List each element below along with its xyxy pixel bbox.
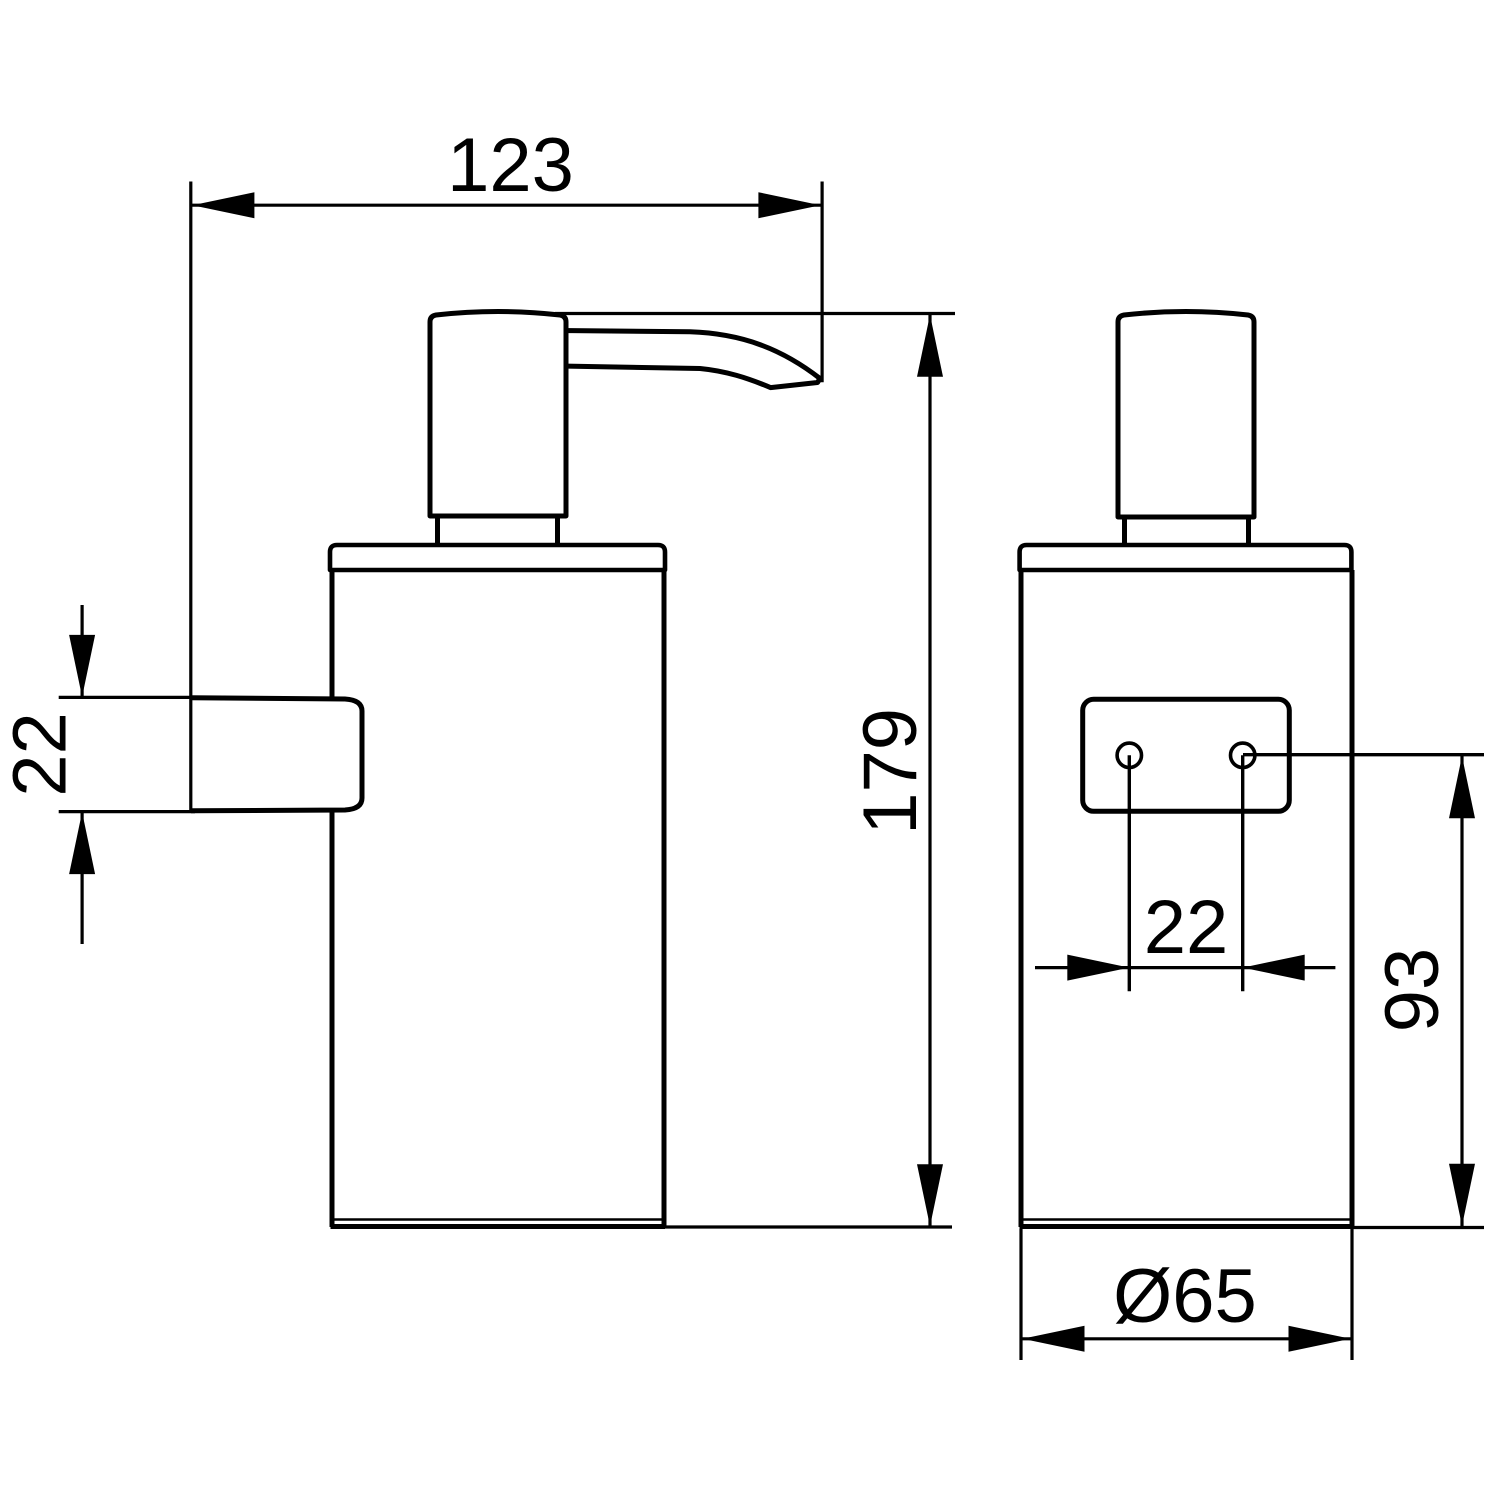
dimension D65: right arrowhead [1289, 1326, 1351, 1352]
front view: base bottom line [1020, 1224, 1353, 1229]
dimension D65: dimension line [1023, 1337, 1351, 1340]
front view: pump neck right edge [1246, 517, 1251, 548]
dimension 179: bottom arrowhead [917, 1164, 943, 1226]
side view: pump neck left edge [435, 516, 440, 548]
dimension 123: right arrowhead [758, 192, 820, 218]
dimension 93: top extension line [1243, 753, 1484, 756]
side view: pump neck right edge [555, 516, 560, 548]
dimension D65: left extension line [1019, 1229, 1022, 1360]
dimension 123: right extension line [820, 182, 823, 383]
front view: base thin line [1022, 1218, 1351, 1221]
front view: pump head [1118, 312, 1254, 518]
dimension 22 side: bottom tick [59, 810, 195, 813]
side view: base thin line [333, 1218, 663, 1221]
dimension 22 side: upper line [80, 605, 83, 696]
dimension 179: top extension line [555, 312, 955, 315]
front view: pump neck left edge [1122, 517, 1127, 548]
side view: body left edge [330, 570, 335, 1227]
svg-text:179: 179 [848, 708, 933, 835]
dimension 22 side: top tick [59, 696, 195, 699]
dimension 93: bottom arrowhead [1449, 1164, 1475, 1226]
svg-text:22: 22 [1144, 885, 1229, 970]
dimension 22 front: right extension line [1241, 755, 1244, 991]
dimension 22 front: right arrowhead [1243, 955, 1305, 981]
front view: body left edge [1019, 570, 1024, 1227]
front view: mounting plate [1083, 699, 1290, 811]
side view: pump head [430, 312, 566, 517]
front view: left screw hole [1117, 743, 1141, 767]
dimension 179: bottom extension line [664, 1225, 952, 1228]
side view: pump spout [560, 331, 820, 388]
side view: wall bracket [191, 698, 362, 811]
dimension 22 front: left extension line [1128, 755, 1131, 991]
dimension 179: top arrowhead [917, 315, 943, 377]
dimension D65: right extension line [1350, 1229, 1353, 1360]
dimension 22 side: upper arrowhead [69, 635, 95, 697]
dimension 22 side: lower arrowhead [69, 812, 95, 874]
front view: collar [1020, 545, 1352, 570]
side view: collar [330, 545, 665, 570]
dimension 123: left extension line [189, 182, 192, 811]
dimension 93: bottom extension line [1352, 1226, 1484, 1229]
dimension 93: dimension line [1460, 756, 1463, 1226]
dimension 123: dimension line [192, 204, 821, 207]
dimension 22 front: left arrowhead [1067, 955, 1129, 981]
svg-text:Ø65: Ø65 [1113, 1254, 1257, 1339]
front view: right screw hole [1231, 743, 1255, 767]
dimension 179: dimension line [928, 315, 931, 1226]
front view: body right edge [1350, 570, 1355, 1227]
svg-text:22: 22 [0, 712, 83, 797]
svg-text:93: 93 [1370, 948, 1455, 1033]
dimension 22 front: dimension line [1035, 966, 1335, 969]
dimension 93: top arrowhead [1449, 756, 1475, 818]
svg-text:123: 123 [447, 123, 574, 208]
dimension 123: left arrowhead [192, 192, 254, 218]
dimension D65: left arrowhead [1023, 1326, 1085, 1352]
side view: body right edge [662, 570, 667, 1227]
dimension 22 side: lower line [80, 813, 83, 944]
side view: base bottom line [331, 1224, 666, 1229]
